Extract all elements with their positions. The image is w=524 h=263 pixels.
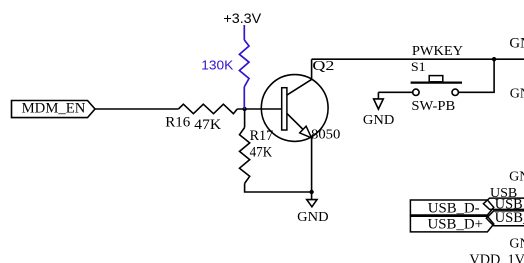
svg-text:S1: S1 (411, 60, 426, 74)
svg-text:GND: GND (510, 86, 524, 101)
wire flag to R16 (95, 108, 178, 110)
net flag USB_D+ (410, 216, 493, 232)
svg-text:VDD_1V8: VDD_1V8 (469, 252, 524, 263)
junction node PWKEY/S1 (492, 57, 496, 61)
junction node base/R16/R17/130K (242, 107, 246, 111)
wire R16 to base (through node) (237, 108, 282, 110)
svg-text:130K: 130K (201, 58, 233, 73)
svg-text:PWKEY: PWKEY (412, 44, 463, 59)
svg-text:SW-PB: SW-PB (411, 99, 455, 114)
wire S1 left pin to ground (378, 91, 412, 93)
net flag MDM_EN (12, 100, 96, 117)
net flag USB_DM (right, clipped) (483, 197, 524, 213)
resistor R17 (240, 128, 250, 184)
svg-text:GND: GND (509, 170, 524, 185)
wire +3.3V to 130K resistor (blue) (243, 25, 245, 40)
transistor Q2 emitter arrowhead (300, 126, 312, 138)
transistor Q2 circle (261, 75, 328, 142)
svg-text:47K: 47K (194, 117, 221, 133)
transistor Q2 emitter line (287, 113, 312, 137)
svg-text:MDM_EN: MDM_EN (22, 100, 86, 116)
net flag USB_D- (410, 200, 493, 216)
svg-text:USB_D-: USB_D- (428, 200, 480, 216)
wire node to R17 (244, 109, 246, 128)
wire 130K to node (blue) (243, 87, 245, 109)
ground GND (emitter) (297, 192, 328, 225)
svg-text:+3.3V: +3.3V (223, 11, 261, 26)
resistor 130K (blue) (239, 40, 249, 87)
svg-text:8050: 8050 (311, 128, 340, 143)
wire junction down to S1 (458, 59, 494, 92)
svg-text:USB_D+: USB_D+ (428, 216, 484, 232)
wire R17 bottom to emitter junction (245, 183, 312, 192)
switch S1 body (411, 76, 462, 96)
svg-text:GND: GND (363, 113, 394, 128)
svg-text:GND: GND (297, 210, 328, 225)
svg-text:Q2: Q2 (312, 58, 334, 73)
svg-text:USB_DP: USB_DP (495, 210, 524, 226)
resistor R16 (178, 104, 237, 114)
junction node emitter/R17 (309, 190, 313, 194)
svg-text:47K: 47K (250, 145, 273, 161)
wire collector to PWKEY net (top rail) (312, 58, 524, 60)
ground GND (switch) (363, 92, 394, 128)
svg-text:GND: GND (509, 237, 524, 252)
transistor Q2 collector line (287, 59, 312, 95)
net flag USB_DP (right, clipped) (486, 210, 524, 226)
wire emitter to ground junction (311, 138, 313, 192)
transistor Q2 base bar (282, 88, 287, 130)
svg-text:R16: R16 (165, 115, 190, 131)
svg-text:GND: GND (509, 36, 524, 52)
